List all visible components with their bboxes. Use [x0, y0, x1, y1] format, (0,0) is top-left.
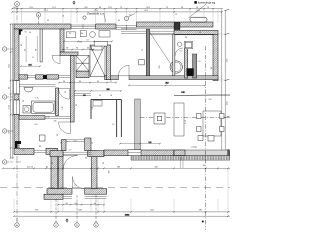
- corner door jamb black: [19, 30, 22, 35]
- symbol circle x84: [83, 16, 86, 19]
- partition x40: [40, 29, 42, 62]
- svg-text:678: 678: [181, 92, 185, 94]
- svg-text:184: 184: [226, 101, 228, 105]
- wall top left wing east part: [96, 24, 116, 29]
- living partition wall x146: [146, 29, 149, 76]
- svg-text:94: 94: [91, 143, 94, 145]
- corridor stub east: [85, 138, 91, 151]
- svg-text:40: 40: [46, 166, 49, 168]
- svg-text:55: 55: [47, 20, 50, 22]
- dim row y216: [13, 214, 230, 217]
- svg-text:A: A: [16, 3, 18, 6]
- beam band top right: [137, 22, 214, 27]
- extra dims right wing: [180, 51, 213, 70]
- section mark u bottom: [66, 219, 68, 223]
- svg-text:29: 29: [76, 103, 78, 106]
- dim texts y82: [63, 81, 113, 83]
- left exterior wall lower: [14, 115, 19, 149]
- svg-text:240: 240: [109, 169, 111, 173]
- dim line y94 right: [174, 92, 230, 95]
- dim line y49 bathroom: [62, 49, 94, 51]
- terrace axis vertical: [205, 46, 207, 230]
- dim texts y211: [35, 209, 203, 211]
- terrace planter right: [203, 111, 221, 136]
- grid bubble B: [36, 13, 40, 29]
- svg-text:90: 90: [94, 203, 97, 205]
- svg-text:98: 98: [13, 7, 16, 9]
- living diagonal: [150, 32, 171, 63]
- svg-text:1024: 1024: [125, 214, 130, 216]
- svg-text:60: 60: [23, 99, 25, 102]
- south wall living room: [104, 150, 174, 156]
- window left wall 2: [14, 100, 20, 115]
- divider door lines: [28, 76, 36, 78]
- witness lines right: [218, 34, 225, 150]
- svg-text:26: 26: [99, 95, 102, 97]
- svg-text:226: 226: [9, 129, 11, 133]
- terrace post 2: [220, 114, 225, 119]
- svg-text:90: 90: [181, 7, 184, 9]
- dim texts y204: [65, 203, 97, 205]
- witness lines bottom: [14, 169, 228, 216]
- terrace band dark block left: [174, 150, 185, 156]
- boundary dashed line: [0, 187, 230, 189]
- svg-text:C: C: [55, 225, 57, 227]
- label Zasobnik: [87, 12, 106, 22]
- dim line y82 corridor: [58, 82, 117, 84]
- vestibule right foot cap: [85, 189, 107, 195]
- svg-text:Zasobnik c.w.: Zasobnik c.w.: [87, 12, 105, 16]
- svg-text:90: 90: [24, 31, 27, 33]
- window left wall 1: [14, 81, 20, 95]
- boiler tank circle: [170, 61, 182, 73]
- svg-text:80: 80: [211, 66, 213, 69]
- terrace post 5: [198, 136, 203, 141]
- svg-text:A: A: [16, 224, 18, 227]
- svg-text:2,9: 2,9: [69, 150, 73, 152]
- right dim col: [224, 9, 229, 151]
- laundry right wall: [56, 88, 59, 116]
- symbol circle x126 with leader: [125, 14, 136, 21]
- chimney block: [76, 55, 89, 71]
- dim row y168: [2, 168, 230, 170]
- pantry bold walls: [91, 100, 121, 137]
- dim line y143: [119, 142, 161, 145]
- right wing bottom wall east: [129, 76, 218, 80]
- room1 dim verticals: [26, 36, 37, 62]
- bottom opening x34-46: [34, 150, 46, 152]
- section mark u top: [73, 1, 75, 5]
- svg-text:konstrukcja wg: konstrukcja wg: [198, 1, 216, 5]
- witness lines top: [14, 9, 218, 23]
- washbasin laundry: [24, 88, 33, 93]
- svg-text:110: 110: [84, 7, 88, 9]
- living column square: [139, 60, 144, 65]
- svg-text:287: 287: [226, 58, 228, 62]
- bathroom2 partition: [185, 48, 188, 78]
- left exterior wall upper: [14, 29, 19, 81]
- washing machine: [23, 106, 30, 114]
- svg-text:716: 716: [29, 7, 33, 9]
- svg-text:302: 302: [159, 64, 161, 68]
- extra dims room1: [21, 32, 35, 78]
- terrace post 1: [197, 114, 202, 119]
- corridor wall west upper: [70, 56, 74, 123]
- corridor door arc lower: [59, 122, 71, 134]
- bottom wall pier: [46, 148, 58, 154]
- door arc right wing: [175, 48, 183, 56]
- svg-text:16: 16: [142, 48, 144, 51]
- laundry texts: [23, 98, 51, 119]
- left exterior wall mid: [14, 94, 19, 100]
- vestibule left wall: [59, 152, 64, 189]
- extra dims corridor: [62, 90, 78, 110]
- flue black block: [187, 68, 194, 76]
- svg-text:56: 56: [99, 7, 102, 9]
- svg-text:2: 2: [4, 97, 6, 99]
- svg-text:102: 102: [74, 203, 78, 205]
- entry door lines: [63, 152, 92, 154]
- svg-text:254: 254: [9, 63, 11, 67]
- terrace edge band gray: [174, 150, 230, 156]
- vestibule right top cap: [88, 151, 104, 157]
- svg-text:1,9: 1,9: [74, 185, 78, 187]
- svg-text:13: 13: [86, 39, 89, 41]
- corridor door arc top: [59, 88, 70, 99]
- window x116-136: [116, 25, 137, 30]
- svg-text:183: 183: [117, 166, 121, 168]
- laundry counter lines: [19, 84, 56, 87]
- extra dims bedroom2: [34, 121, 59, 137]
- svg-text:157: 157: [52, 7, 56, 9]
- svg-text:276: 276: [35, 209, 39, 211]
- divider flue black: [43, 75, 47, 79]
- bedroom small square: [40, 135, 46, 141]
- grid axis A vertical: [15, 2, 20, 223]
- svg-text:96: 96: [110, 95, 113, 97]
- svg-text:344: 344: [150, 209, 154, 211]
- dim top row2 texts: [44, 10, 200, 12]
- glazing lines right wing: [121, 29, 174, 34]
- bathroom door arc: [52, 56, 60, 64]
- svg-text:301: 301: [146, 7, 150, 9]
- skylight rounded rect: [190, 17, 207, 22]
- symbol circle right wing: [177, 42, 181, 46]
- room divider wall y75 mid: [35, 75, 43, 79]
- svg-text:120: 120: [62, 105, 64, 109]
- dim line y85 right wing: [128, 83, 206, 87]
- svg-text:452: 452: [165, 83, 169, 85]
- garden wall strip: [51, 155, 58, 189]
- survey dot: [202, 221, 204, 223]
- svg-text:4,10: 4,10: [185, 119, 187, 124]
- wardrobe: [90, 45, 105, 76]
- entry door arc: [63, 156, 78, 171]
- dim texts y168: [27, 165, 206, 168]
- terrace post 3: [197, 127, 202, 132]
- chimney lower blocks: [76, 71, 89, 78]
- svg-text:90: 90: [65, 203, 68, 205]
- svg-text:2,0: 2,0: [129, 15, 133, 17]
- svg-text:90: 90: [65, 90, 67, 93]
- room divider wall y75 east: [47, 75, 59, 79]
- dim line y66 room1: [20, 64, 41, 67]
- bathroom left wall: [60, 29, 64, 52]
- dim line y41 bathroom: [63, 41, 113, 43]
- right wing bottom wall west: [105, 76, 119, 80]
- steps below right cap: [85, 196, 107, 198]
- left grid bubbles: [2, 47, 14, 51]
- extra top texts: [47, 14, 178, 22]
- extra dims living: [142, 32, 202, 69]
- steps below left cap: [63, 196, 72, 198]
- svg-text:90: 90: [9, 86, 11, 89]
- dim row y211: [13, 211, 230, 213]
- wall top left wing west part: [14, 24, 71, 29]
- terrace small dim pair: [181, 157, 184, 168]
- dim top row2: [11, 11, 223, 13]
- svg-text:140: 140: [9, 104, 11, 108]
- living-bath divider wall: [173, 34, 175, 76]
- wall right of wardrobe: [107, 45, 111, 80]
- extra dims kitchen: [92, 95, 115, 126]
- svg-text:110: 110: [34, 124, 38, 126]
- terrace door window box: [128, 150, 141, 156]
- garden wall foot cap: [47, 189, 72, 195]
- garden wall foot lower: [44, 194, 63, 199]
- svg-text:5,9: 5,9: [74, 141, 78, 143]
- svg-text:379: 379: [25, 73, 27, 77]
- svg-text:90: 90: [185, 37, 188, 39]
- right dim texts: [226, 58, 228, 105]
- svg-text:240: 240: [53, 121, 57, 123]
- svg-text:schody: schody: [191, 147, 197, 149]
- bottom wall left segment: [14, 148, 34, 154]
- dark block on beam: [174, 22, 180, 29]
- svg-text:60: 60: [118, 20, 121, 22]
- svg-text:210,10: 210,10: [27, 166, 34, 168]
- wall y115: [19, 116, 45, 120]
- left dim col lines: [10, 23, 14, 159]
- hall door arc to living: [119, 65, 130, 76]
- svg-text:4: 4: [4, 162, 6, 164]
- kitchen sink: [93, 101, 102, 107]
- bathroom2 wall dark: [193, 54, 197, 78]
- sink right wing: [184, 41, 193, 48]
- terrace planter left: [174, 103, 184, 136]
- svg-text:3: 3: [4, 131, 6, 133]
- svg-text:11: 11: [32, 57, 35, 59]
- corner jamb black L: [15, 141, 21, 150]
- dim top row1: [11, 8, 223, 10]
- right exterior wall: [213, 34, 218, 80]
- svg-text:90: 90: [57, 133, 59, 136]
- corridor lintel lines: [66, 140, 85, 142]
- svg-text:16: 16: [62, 16, 65, 18]
- svg-text:30: 30: [29, 32, 32, 34]
- svg-text:150: 150: [208, 99, 212, 101]
- room divider wall y75 west: [19, 75, 28, 79]
- extra dims bottom left: [15, 146, 54, 164]
- leader line top-right: [189, 4, 207, 18]
- dim top row1 texts: [13, 7, 210, 9]
- wall top right wing: [174, 31, 218, 35]
- extra dims terrace: [185, 99, 213, 149]
- left dim texts: [9, 63, 11, 133]
- terrace band dark block right: [227, 150, 230, 156]
- svg-text:D: D: [76, 225, 78, 227]
- dim texts bathroom: [69, 33, 90, 44]
- svg-text:9,6: 9,6: [180, 51, 184, 53]
- svg-text:170: 170: [35, 98, 39, 100]
- svg-text:75: 75: [175, 14, 178, 16]
- svg-text:348: 348: [78, 209, 82, 211]
- vestibule exit door arc: [73, 177, 85, 189]
- vestibule left top cap: [50, 151, 63, 157]
- svg-text:40: 40: [103, 161, 105, 164]
- door lines y116: [45, 117, 70, 119]
- gray pocket wall: [135, 99, 141, 150]
- witness lines left: [11, 24, 14, 158]
- dim texts y49: [66, 48, 90, 50]
- dim row y204: [57, 204, 105, 206]
- svg-text:14: 14: [196, 7, 199, 9]
- svg-text:7,5: 7,5: [112, 124, 116, 126]
- svg-text:987: 987: [199, 210, 203, 212]
- svg-text:344: 344: [154, 166, 158, 168]
- svg-text:86: 86: [39, 146, 42, 148]
- terrace post 4: [220, 127, 225, 132]
- dim line y90 kitchen: [74, 89, 122, 97]
- terrace axis horizontal: [140, 117, 230, 119]
- terrace post 6: [208, 136, 214, 142]
- corridor stub west: [62, 140, 67, 151]
- svg-text:1: 1: [4, 49, 6, 51]
- svg-text:204: 204: [79, 42, 83, 44]
- bottom grid bubbles: [15, 218, 19, 227]
- svg-text:1.9: 1.9: [198, 61, 202, 63]
- label top-right konstrukcja: [194, 1, 215, 5]
- svg-text:94: 94: [85, 158, 88, 160]
- dim row y168 extra ticks: [33, 168, 47, 170]
- terrace upper edge line: [174, 95, 230, 97]
- corridor south wall lines: [74, 94, 91, 96]
- svg-text:75: 75: [120, 7, 123, 9]
- svg-text:75: 75: [207, 7, 210, 9]
- bathroom bottom wall: [60, 52, 78, 56]
- svg-text:129: 129: [108, 7, 112, 9]
- paving tick band south: [131, 156, 230, 161]
- column square-in-square: [154, 113, 165, 124]
- bathroom fixtures row: [66, 31, 107, 46]
- svg-text:90: 90: [21, 43, 23, 46]
- svg-text:10,10: 10,10: [15, 162, 21, 164]
- corridor opening lines y76: [59, 76, 71, 78]
- svg-text:B: B: [38, 15, 40, 17]
- extra dims vestibule2: [69, 150, 88, 188]
- wc fixtures small room: [99, 31, 110, 38]
- svg-text:E: E: [95, 225, 97, 227]
- svg-text:75: 75: [166, 7, 169, 9]
- vestibule right wall: [92, 151, 98, 189]
- right inner dim line: [221, 10, 223, 150]
- wall inner face line: [150, 34, 213, 36]
- window top wall: [71, 24, 96, 29]
- bathtub: [32, 101, 56, 114]
